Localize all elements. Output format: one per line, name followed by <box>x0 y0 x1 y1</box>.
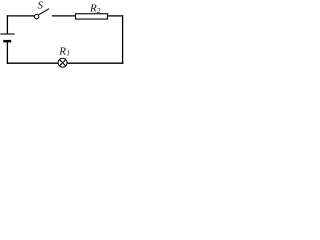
battery cell: short thick negative plate <box>3 40 11 43</box>
svg-text:1: 1 <box>66 49 70 58</box>
svg-text:2: 2 <box>97 6 101 15</box>
wire: left vertical lower (battery to bottom corner) <box>6 42 8 63</box>
switch S (open, pivot circle + blade) <box>34 9 49 19</box>
wire: switch to resistor R2 <box>52 15 76 17</box>
label R1 <box>58 45 70 57</box>
svg-text:R: R <box>89 3 97 15</box>
lamp R1 (circle with X) <box>58 58 67 67</box>
label S <box>38 0 44 11</box>
wire: bottom right (corner to lamp) <box>67 62 123 64</box>
label R2 <box>89 3 101 15</box>
wire: left vertical upper (top corner to battery) <box>6 15 8 34</box>
svg-text:S: S <box>38 0 44 11</box>
resistor R2 (box) <box>76 14 108 19</box>
svg-text:R: R <box>58 45 66 57</box>
wire: right vertical <box>122 15 124 64</box>
battery cell: long thin positive plate <box>0 33 14 35</box>
wire: bottom left (lamp to corner) <box>7 62 58 64</box>
wire: top-left horizontal (corner to switch) <box>7 15 34 17</box>
wire: resistor R2 to top-right corner <box>108 15 123 17</box>
